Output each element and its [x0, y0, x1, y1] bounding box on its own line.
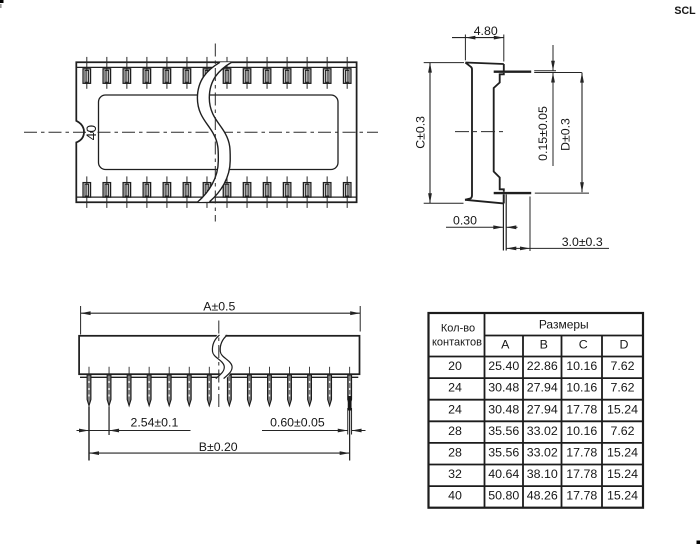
plan view inner cavity: [99, 95, 339, 170]
svg-text:17.78: 17.78: [566, 402, 597, 416]
svg-text:0.60±0.05: 0.60±0.05: [270, 415, 325, 429]
svg-text:2.54±0.1: 2.54±0.1: [131, 415, 179, 429]
dimension C±0.3: [413, 63, 464, 204]
svg-text:D: D: [620, 338, 629, 352]
svg-text:15.24: 15.24: [607, 489, 638, 503]
svg-text:15.24: 15.24: [607, 446, 638, 460]
end view top contact pin: [494, 71, 582, 73]
svg-text:B±0.20: B±0.20: [199, 440, 238, 454]
svg-text:22.86: 22.86: [527, 359, 558, 373]
end view bottom contact pin: [494, 192, 589, 194]
table grid: [429, 313, 644, 508]
svg-text:15.24: 15.24: [607, 467, 638, 481]
svg-text:24: 24: [448, 381, 462, 395]
svg-text:7.62: 7.62: [610, 359, 634, 373]
svg-text:33.02: 33.02: [527, 424, 558, 438]
front view pins: [87, 367, 351, 406]
plan view upper row contacts: [83, 57, 351, 89]
dimension 4.80: [452, 24, 504, 61]
svg-text:40: 40: [83, 125, 99, 141]
svg-text:27.94: 27.94: [527, 402, 558, 416]
plan view break line left: [197, 62, 220, 202]
svg-text:35.56: 35.56: [488, 424, 519, 438]
svg-text:33.02: 33.02: [527, 446, 558, 460]
end view solder tail: [503, 194, 506, 250]
svg-text:D±0.3: D±0.3: [559, 118, 573, 151]
svg-text:50.80: 50.80: [488, 489, 519, 503]
pin count label 40: [83, 125, 99, 141]
svg-text:24: 24: [448, 402, 462, 416]
svg-text:20: 20: [448, 359, 462, 373]
svg-text:4.80: 4.80: [474, 24, 498, 38]
svg-text:10.16: 10.16: [566, 424, 597, 438]
svg-text:7.62: 7.62: [610, 381, 634, 395]
svg-text:30.48: 30.48: [488, 381, 519, 395]
svg-text:40.64: 40.64: [488, 467, 519, 481]
svg-text:17.78: 17.78: [566, 467, 597, 481]
svg-text:32: 32: [448, 467, 462, 481]
svg-text:38.10: 38.10: [527, 467, 558, 481]
svg-text:48.26: 48.26: [527, 489, 558, 503]
plan view vertical centerline: [214, 44, 216, 222]
svg-text:C: C: [579, 338, 588, 352]
svg-text:17.78: 17.78: [566, 446, 597, 460]
svg-text:7.62: 7.62: [610, 424, 634, 438]
svg-text:28: 28: [448, 424, 462, 438]
svg-text:Размеры: Размеры: [539, 317, 589, 331]
svg-text:15.24: 15.24: [607, 402, 638, 416]
svg-text:0.30: 0.30: [453, 213, 477, 227]
plan view socket body outline with polarizing notch: [76, 62, 356, 202]
dimension 0.60±0.05 pin width: [262, 396, 366, 435]
svg-text:35.56: 35.56: [488, 446, 519, 460]
front view body: [79, 336, 359, 374]
dimension 3.0±0.3 pin length: [506, 197, 609, 252]
front view break line left: [212, 335, 224, 379]
svg-text:28: 28: [448, 446, 462, 460]
dimension B±0.20: [89, 407, 350, 461]
end view socket profile: [465, 63, 504, 204]
plan view break line right: [209, 62, 232, 202]
dimension D±0.3: [559, 73, 584, 193]
page title SCL: [674, 5, 696, 17]
svg-text:10.16: 10.16: [566, 359, 597, 373]
front view base rail line: [80, 376, 358, 378]
front view vertical centerline: [218, 321, 220, 411]
dimension 2.54±0.1 pin pitch: [77, 407, 191, 436]
svg-text:17.78: 17.78: [566, 489, 597, 503]
plan view lower row contacts: [83, 176, 351, 208]
table header: [432, 317, 629, 351]
dimension 0.15±0.05: [536, 45, 555, 166]
front view break gap mask: [216, 334, 228, 380]
svg-text:C±0.3: C±0.3: [413, 116, 427, 149]
svg-text:27.94: 27.94: [527, 381, 558, 395]
svg-text:контактов: контактов: [432, 337, 482, 349]
table data rows: [448, 359, 638, 503]
svg-text:0.15±0.05: 0.15±0.05: [536, 106, 550, 161]
svg-text:SCL: SCL: [674, 5, 696, 17]
dimension 0.30 tail thickness: [446, 213, 518, 229]
plan view break gap mask: [197, 62, 231, 202]
dimension A±0.5: [81, 300, 361, 335]
plan view upper pin-row band line: [76, 66, 356, 68]
plan view lower pin-row band line: [76, 196, 356, 198]
svg-text:40: 40: [448, 489, 462, 503]
svg-text:A±0.5: A±0.5: [203, 300, 235, 314]
svg-text:25.40: 25.40: [488, 359, 519, 373]
svg-text:A: A: [501, 338, 510, 352]
corner mark bottom-right: [697, 541, 700, 544]
svg-text:Кол-во: Кол-во: [441, 323, 475, 335]
svg-text:B: B: [540, 338, 548, 352]
svg-text:10.16: 10.16: [566, 381, 597, 395]
svg-text:30.48: 30.48: [488, 402, 519, 416]
svg-text:3.0±0.3: 3.0±0.3: [562, 235, 603, 249]
end view centerline: [455, 131, 504, 133]
front view break line right: [220, 335, 232, 379]
corner mark top-left: [0, 0, 4, 8]
plan view horizontal centerline: [24, 131, 378, 133]
